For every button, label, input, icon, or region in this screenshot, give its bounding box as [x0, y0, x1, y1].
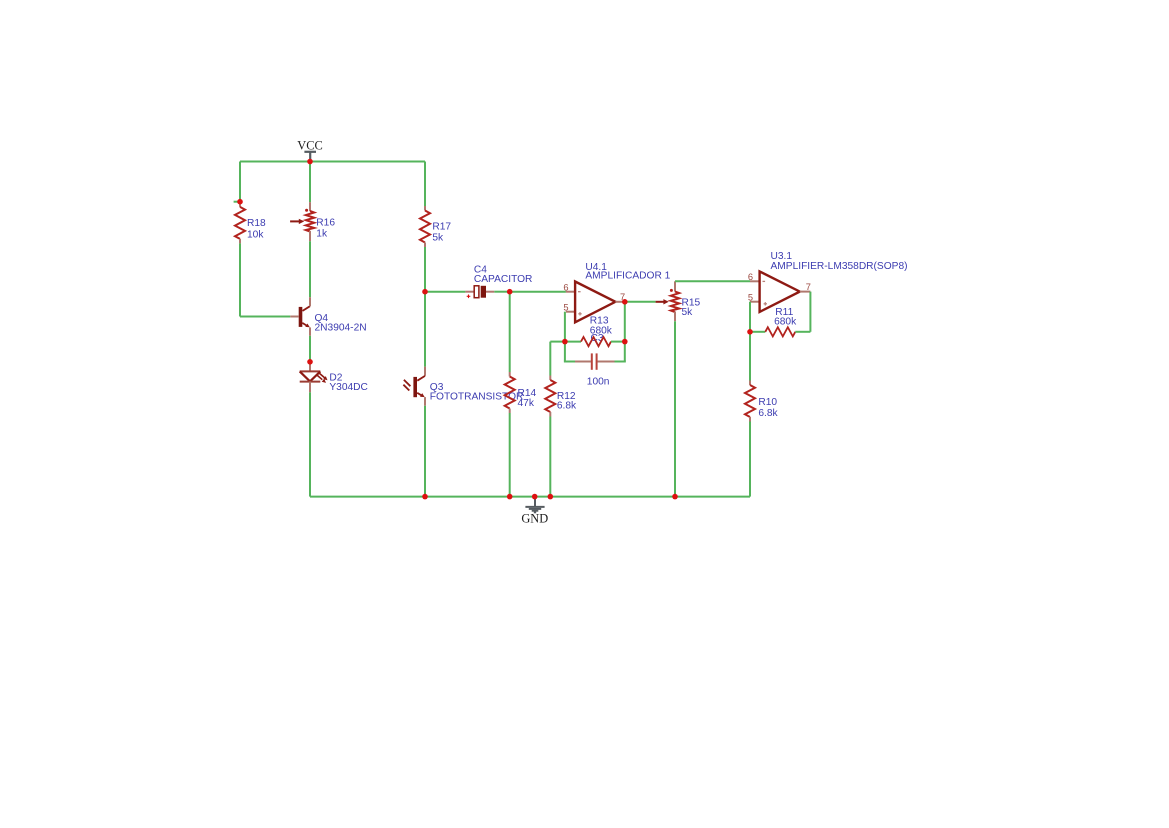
svg-text:100n: 100n — [587, 376, 610, 387]
label R15 5k — [682, 297, 701, 318]
wire D2 cathode to ground rail — [309, 392, 311, 496]
capacitor C4 (polarized) — [465, 286, 494, 298]
svg-text:R16: R16 — [316, 217, 335, 228]
wire top VCC rail — [240, 161, 425, 163]
svg-text:6.8k: 6.8k — [758, 408, 778, 419]
svg-text:10k: 10k — [247, 229, 264, 240]
svg-text:5k: 5k — [432, 232, 444, 243]
wire Q4 emitter to D2 — [309, 336, 311, 362]
wire R11 node down to R10 — [749, 332, 751, 381]
svg-text:680k: 680k — [774, 317, 797, 328]
label R11 680k — [774, 307, 797, 328]
wire ground rail — [310, 496, 750, 498]
node rail GND — [532, 494, 538, 500]
R15 wiper arrow — [656, 299, 669, 304]
label R12 6.8k — [557, 391, 577, 411]
label R14 47k — [518, 388, 537, 409]
wire R17 to C4 node — [424, 247, 426, 292]
wire VCC to R16 — [309, 162, 311, 203]
svg-text:6: 6 — [563, 282, 568, 292]
wire feedback node left to R12 — [550, 342, 565, 376]
svg-text:R18: R18 — [247, 218, 266, 229]
label C4 CAPACITOR — [474, 265, 533, 286]
wire R15 bottom to ground rail — [674, 321, 676, 496]
node R18 top (stub) — [234, 201, 240, 203]
svg-text:2N3904-2N: 2N3904-2N — [315, 322, 367, 333]
ground symbol GND — [521, 497, 548, 526]
wire C4 right to node — [494, 291, 509, 293]
node R11 left — [747, 329, 753, 335]
op-amp U4.1 — [566, 282, 625, 323]
label U3.1 AMPLIFIER-LM358DR(SOP8) — [771, 251, 908, 272]
svg-text:5: 5 — [563, 302, 568, 312]
node feedback right — [622, 339, 628, 345]
label R13 680k — [590, 316, 613, 337]
wire R14 drop — [509, 292, 511, 372]
wire R10 to ground rail — [749, 422, 751, 497]
wire R18 branch from VCC rail — [239, 162, 241, 202]
R16 wiper arrow — [290, 219, 304, 224]
wire node to U4 pin 6 — [510, 291, 566, 293]
node R17/C4/Q3 junction — [422, 289, 428, 295]
label R16 1k — [316, 217, 335, 239]
resistor R14 — [505, 372, 515, 413]
svg-text:6: 6 — [748, 272, 753, 282]
potentiometer R16 — [305, 202, 314, 241]
svg-text:Y304DC: Y304DC — [329, 382, 368, 393]
resistor R13 (feedback) — [565, 337, 625, 346]
wire U3.1 pin5 down — [749, 302, 751, 332]
svg-text:5k: 5k — [682, 307, 694, 318]
svg-text:680k: 680k — [590, 326, 613, 337]
svg-text:AMPLIFIER-LM358DR(SOP8): AMPLIFIER-LM358DR(SOP8) — [771, 261, 908, 272]
node rail R12 — [548, 494, 554, 500]
label D2 Y304DC — [329, 372, 368, 393]
resistor R11 (feedback) — [750, 327, 810, 336]
wire VCC rail to R17 — [424, 162, 426, 207]
label Q4 2N3904-2N — [315, 313, 367, 334]
wire R16 to Q4 collector — [309, 241, 311, 297]
node rail R15 — [672, 494, 678, 500]
node feedback left — [562, 339, 568, 345]
svg-text:5: 5 — [748, 292, 753, 302]
transistor Q4 — [290, 297, 310, 336]
potentiometer R15 — [670, 281, 679, 321]
node U4.1 output — [622, 299, 628, 305]
resistor R12 — [545, 376, 555, 417]
svg-text:R10: R10 — [758, 397, 777, 408]
wire R18 bottom to Q4 base — [240, 243, 290, 316]
svg-text:AMPLIFICADOR 1: AMPLIFICADOR 1 — [585, 270, 670, 281]
svg-text:7: 7 — [806, 282, 811, 292]
svg-text:6.8k: 6.8k — [557, 400, 577, 411]
wire C4 left — [425, 291, 465, 293]
svg-text:1k: 1k — [316, 229, 328, 240]
transistor Q3 FOTOTRANSISTOR — [403, 367, 425, 406]
node C4/R14 junction — [507, 289, 513, 295]
svg-text:R17: R17 — [432, 221, 451, 232]
node VCC junction — [307, 159, 313, 165]
wire output to R15 wiper — [625, 301, 656, 303]
wire output down to feedback — [624, 302, 626, 342]
svg-text:GND: GND — [521, 512, 548, 526]
svg-text:47k: 47k — [518, 398, 535, 409]
wire U4.1 pin5 down to feedback node — [564, 312, 566, 342]
node R18 top — [237, 199, 243, 205]
wire R14 to ground rail — [509, 413, 511, 497]
wire Q3 emitter to ground rail — [424, 406, 426, 497]
node D2 anode junction — [307, 359, 313, 365]
resistor R10 — [745, 381, 755, 422]
op-amp U3.1 — [750, 271, 810, 312]
diode D2 (LED) — [300, 362, 328, 393]
capacitor C3 100n — [564, 342, 626, 370]
svg-text:CAPACITOR: CAPACITOR — [474, 274, 533, 285]
node rail Q3 — [422, 494, 428, 500]
label R10 6.8k — [758, 397, 778, 419]
node rail R14 — [507, 494, 513, 500]
wire R12 to ground rail — [549, 417, 551, 497]
power symbol VCC — [297, 138, 322, 161]
resistor R18 — [235, 202, 245, 244]
wire U3.1 output down to R11 — [809, 292, 811, 332]
label Q3 FOTOTRANSISTOR — [430, 382, 524, 403]
wire R15 top to U3 pin 6 — [675, 280, 750, 282]
svg-text:VCC: VCC — [297, 138, 322, 152]
resistor R17 — [420, 206, 430, 247]
label U4.1 AMPLIFICADOR 1 — [585, 262, 670, 281]
label R18 10k — [247, 218, 266, 241]
label R17 5k — [432, 221, 451, 243]
wire C4 node down to Q3 — [424, 292, 426, 367]
